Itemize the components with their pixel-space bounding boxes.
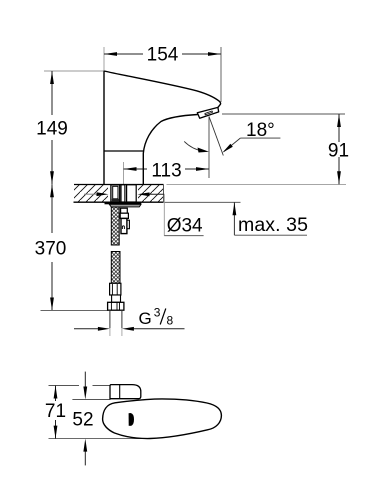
svg-text:max. 35: max. 35 bbox=[238, 214, 308, 236]
svg-text:3: 3 bbox=[154, 306, 161, 320]
svg-text:71: 71 bbox=[45, 401, 66, 422]
svg-text:8: 8 bbox=[167, 314, 174, 328]
svg-text:154: 154 bbox=[147, 45, 179, 66]
svg-text:370: 370 bbox=[35, 239, 67, 260]
svg-text:Ø34: Ø34 bbox=[167, 216, 203, 237]
svg-text:G: G bbox=[139, 309, 152, 328]
svg-text:91: 91 bbox=[328, 140, 349, 161]
svg-text:52: 52 bbox=[72, 410, 93, 431]
svg-text:113: 113 bbox=[151, 161, 181, 182]
svg-text:18°: 18° bbox=[246, 120, 275, 141]
svg-text:149: 149 bbox=[36, 118, 68, 139]
